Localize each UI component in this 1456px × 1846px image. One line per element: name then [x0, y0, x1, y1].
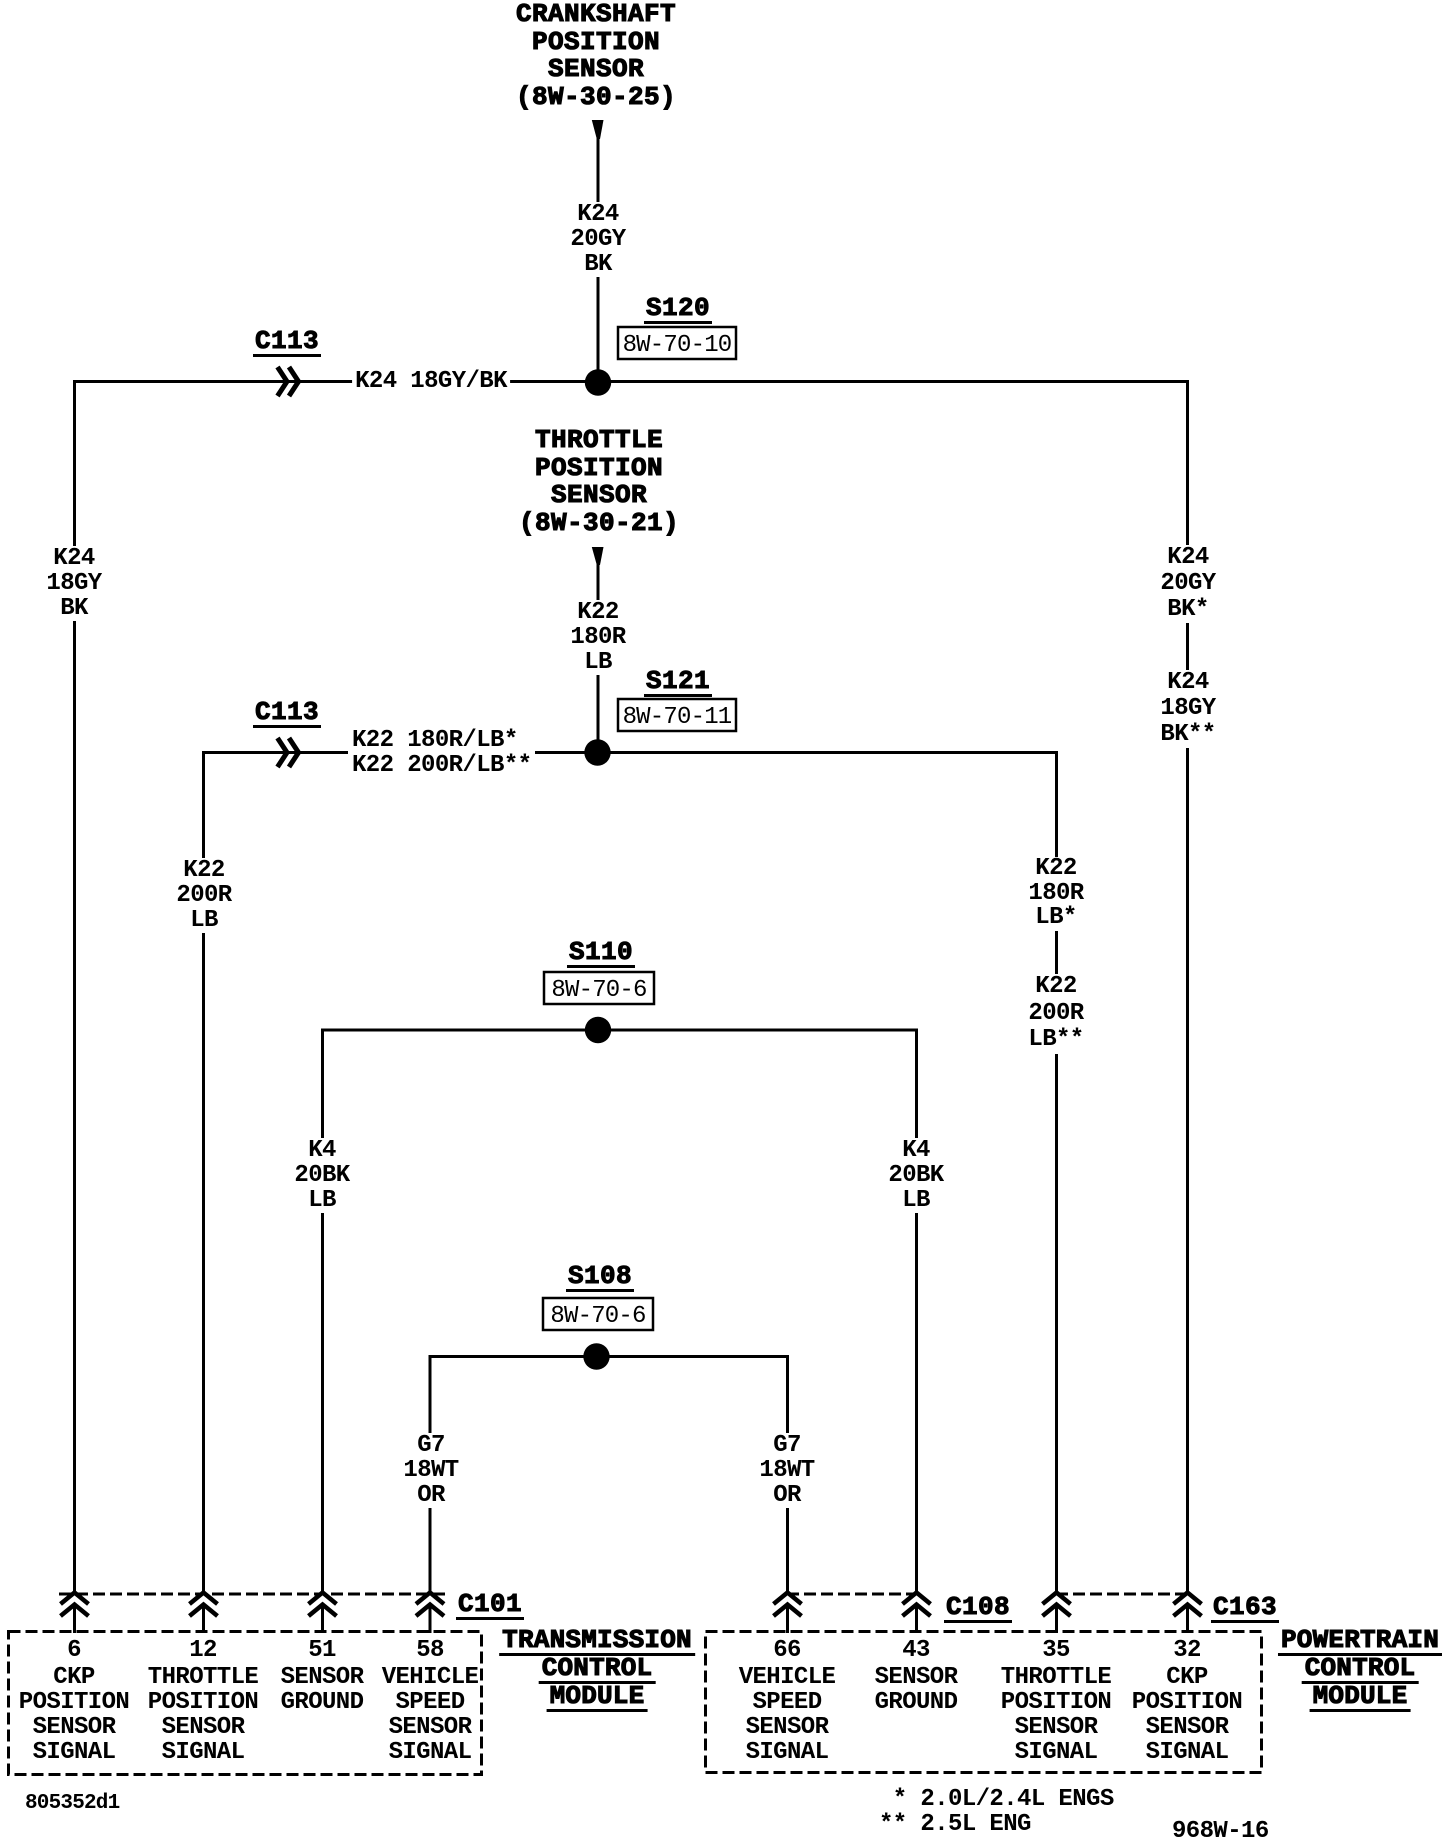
wire: TPS lead arrow	[592, 547, 604, 565]
splice ref 8W-70-6 (S108)	[543, 1304, 653, 1329]
pin 32 CKP POSITION SENSOR SIGNAL	[1132, 1638, 1242, 1765]
connector chevrons pin 43	[903, 1593, 931, 1617]
wire: K22 200R/LB down to pin 12	[202, 751, 205, 1593]
wire stub pin 51	[321, 1606, 324, 1633]
connector chevrons pin 32	[1174, 1593, 1202, 1617]
wire label G7 18WT OR (pin 58 wire)	[400, 1433, 461, 1508]
wire label G7 18WT OR (pin 66 wire)	[756, 1433, 817, 1508]
pin 6 CKP POSITION SENSOR SIGNAL	[19, 1638, 129, 1765]
splice S121 reference box	[618, 699, 736, 731]
splice label S108	[566, 1263, 634, 1292]
splice S108 junction dot	[583, 1343, 609, 1369]
pin 58 VEHICLE SPEED SENSOR SIGNAL	[382, 1638, 479, 1765]
splice ref 8W-70-6 (S110)	[544, 978, 654, 1003]
splice S108 reference box	[543, 1298, 653, 1330]
note: diagram id 805352d1	[25, 1791, 119, 1816]
connector chevrons pin 66	[774, 1593, 802, 1617]
node: POWERTRAIN CONTROL MODULE	[1278, 1627, 1442, 1656]
note: engine footnotes	[879, 1787, 1114, 1837]
connector label C101	[456, 1591, 524, 1620]
connector chevrons pin 51	[309, 1593, 337, 1617]
wire: K4 20BK/LB down to pin 43	[915, 1029, 918, 1594]
wire label K22 180R/LB* / K22 200R/LB**	[348, 728, 535, 778]
wire: CKP sensor lead arrow	[592, 120, 604, 139]
wire stub pin 6	[73, 1606, 76, 1633]
wire label K4 20BK LB (pin 43 wire)	[885, 1138, 946, 1213]
connector C163 dashed header line	[1056, 1593, 1187, 1596]
wire label K22 180R LB* (pin 35 wire)	[1025, 857, 1086, 931]
wire: trunk from CKP sensor to S120	[597, 136, 600, 383]
pin 43 SENSOR GROUND	[875, 1638, 958, 1715]
wire: trunk from TPS to S121	[597, 562, 600, 754]
Powertrain Control Module dashed box	[706, 1632, 1262, 1773]
wire stub pin 58	[429, 1606, 432, 1633]
connector C113 chevrons on S120 bus	[278, 367, 299, 396]
connector chevrons pin 12	[190, 1593, 218, 1617]
connector label C113 (S121 bus)	[253, 699, 321, 728]
wire: S121 horizontal bus	[203, 751, 1058, 754]
wire stub pin 43	[915, 1606, 918, 1633]
wire stub pin 12	[202, 1606, 205, 1633]
node: TRANSMISSION CONTROL MODULE	[499, 1627, 695, 1656]
pin 35 THROTTLE POSITION SENSOR SIGNAL	[1001, 1638, 1111, 1765]
Transmission Control Module dashed box	[9, 1632, 482, 1775]
pin 66 VEHICLE SPEED SENSOR SIGNAL	[739, 1638, 836, 1765]
connector label C108	[944, 1594, 1012, 1623]
splice label S121	[644, 668, 712, 697]
wire label K24 20GY BK (top trunk)	[567, 202, 628, 277]
splice S121 junction dot	[584, 739, 610, 765]
splice S120 reference box	[618, 327, 736, 359]
wire: G7 18WT/OR down to pin 66	[786, 1355, 789, 1593]
wire: K24 18GY/BK down to pin 6	[73, 380, 76, 1593]
wire stub pin 66	[786, 1606, 789, 1633]
wire: S110 horizontal bus	[322, 1029, 918, 1032]
pin 51 SENSOR GROUND	[281, 1638, 364, 1715]
wire: K4 20BK/LB down to pin 51	[321, 1029, 324, 1594]
connector label C163	[1211, 1594, 1279, 1623]
wire: K22 down to pin 35	[1055, 751, 1058, 1593]
connector C113 chevrons on S121 bus	[278, 738, 299, 767]
pin 12 THROTTLE POSITION SENSOR SIGNAL	[148, 1638, 258, 1765]
splice S110 reference box	[544, 972, 654, 1004]
wire label K24 18GY BK (pin 6 wire)	[43, 546, 104, 621]
node: CRANKSHAFT POSITION SENSOR title	[516, 1, 676, 111]
wire label K24 18GY BK** (pin 32 wire)	[1157, 670, 1218, 748]
splice ref 8W-70-11	[618, 705, 736, 730]
wire label K22 180R LB (mid trunk)	[567, 600, 628, 675]
node: THROTTLE POSITION SENSOR title	[519, 427, 679, 537]
connector C101 dashed header line	[59, 1593, 446, 1596]
wire: K24 down to pin 32	[1186, 380, 1189, 1593]
connector C108 dashed header line	[787, 1593, 916, 1596]
connector label C113 (S120 bus)	[253, 328, 321, 357]
wire label K22 200R LB (pin 12 wire)	[173, 858, 234, 933]
splice label S110	[567, 939, 635, 968]
wire label K24 20GY BK* (pin 32 wire)	[1157, 545, 1218, 623]
wire: S120 horizontal bus	[74, 380, 1189, 383]
connector chevrons pin 58	[416, 1593, 444, 1617]
wire stub pin 32	[1186, 1606, 1189, 1633]
wire label K4 20BK LB (pin 51 wire)	[291, 1138, 352, 1213]
connector chevrons pin 6	[61, 1593, 89, 1617]
wire label K22 200R LB** (pin 35 wire)	[1025, 974, 1086, 1054]
wire stub pin 35	[1055, 1606, 1058, 1633]
splice ref 8W-70-10	[618, 333, 736, 358]
wire label K24 18GY/BK (S120 bus)	[352, 369, 510, 394]
wire: S108 horizontal bus	[430, 1355, 789, 1358]
connector chevrons pin 35	[1043, 1593, 1071, 1617]
wire: G7 18WT/OR down to pin 58	[429, 1355, 432, 1593]
splice label S120	[644, 295, 712, 324]
note: sheet number 968W-16	[1172, 1819, 1269, 1844]
splice S110 junction dot	[585, 1017, 611, 1043]
splice S120 junction dot	[585, 369, 611, 395]
